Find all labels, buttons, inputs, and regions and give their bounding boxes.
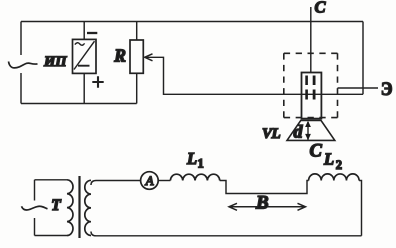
dimension arrow d (307, 122, 309, 140)
tube electrode bar bottom-left (305, 90, 308, 100)
svg-text:Э: Э (381, 78, 393, 99)
svg-text:A: A (145, 173, 154, 188)
transformer T core (78, 176, 80, 238)
AC lead squiggle (9, 62, 38, 68)
resistor R bottom lead (136, 73, 138, 103)
ammeter A body (141, 172, 159, 190)
screen cone (287, 120, 335, 140)
resistor R body (130, 40, 143, 73)
svg-text:C: C (315, 0, 327, 17)
transformer T primary loop top wire (35, 179, 68, 181)
svg-text:R: R (113, 45, 126, 65)
tube electrode bar top-left (305, 76, 308, 86)
svg-text:L: L (186, 149, 197, 168)
transformer T secondary winding (85, 180, 91, 235)
bottom wire of source loop (21, 103, 137, 105)
secondary top wire (91, 181, 141, 186)
transformer T primary winding (67, 180, 73, 236)
wiper wire (145, 57, 363, 94)
svg-text:2: 2 (336, 158, 342, 172)
svg-text:Т: Т (51, 197, 61, 214)
svg-text:VL: VL (262, 126, 281, 142)
bottom return wire (91, 232, 362, 236)
wire ammeter to L1 (158, 180, 170, 182)
inductor L1 (170, 174, 219, 180)
converter diagonal (74, 41, 95, 69)
top wire (21, 21, 363, 23)
electrode wire (338, 87, 379, 89)
polarity plus label (92, 76, 103, 87)
svg-text:C: C (310, 142, 323, 162)
wire L1 to gap (220, 181, 309, 194)
converter U1 top lead (83, 22, 85, 40)
dashed tube enclosure (284, 52, 338, 54)
left vertical wire (upper) (20, 22, 22, 56)
polarity minus label (87, 32, 97, 34)
svg-text:ИП: ИП (43, 54, 67, 70)
inductor L2 (309, 174, 359, 181)
svg-text:d: d (294, 122, 304, 142)
tube electrode bar bottom-right (313, 90, 316, 100)
tube VL envelope (302, 73, 322, 119)
svg-text:B: B (255, 192, 269, 213)
node C wire (310, 7, 312, 73)
svg-text:1: 1 (198, 157, 204, 171)
transformer T primary loop bottom wire (35, 235, 68, 237)
transformer T primary left vertical (lower) (34, 218, 36, 236)
wiper arrow barbs (145, 54, 153, 61)
left vertical wire (lower) (20, 73, 22, 104)
converter U1 box (73, 39, 97, 73)
dimension arrow B (230, 206, 306, 208)
converter DC bar (78, 65, 90, 67)
converter U1 bottom lead (83, 73, 85, 103)
resistor R top lead (136, 22, 138, 41)
transformer T primary left vertical (upper) (34, 180, 36, 201)
wire L2 right vertical (359, 181, 361, 236)
svg-text:L: L (323, 150, 334, 169)
right vertical wire (362, 22, 364, 95)
converter AC tilde (75, 43, 85, 46)
transformer T lead squiggle (22, 206, 48, 210)
tube electrode bar top-right (313, 76, 316, 86)
